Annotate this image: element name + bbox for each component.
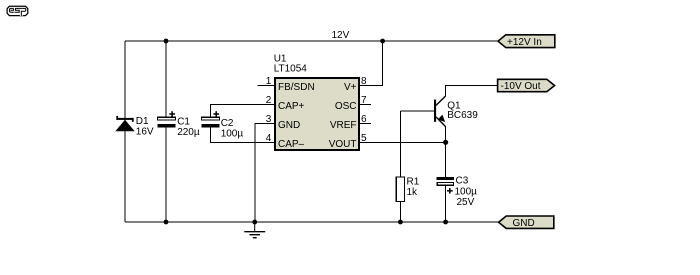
wire: left vertical branch (D1) <box>124 41 126 222</box>
svg-text:CAP–: CAP– <box>278 139 305 150</box>
svg-text:16V: 16V <box>136 126 154 137</box>
C3 plus sign <box>447 188 453 194</box>
capacitor C3 (polarized, + down) <box>437 177 455 185</box>
junction dot bottom rail / ground <box>252 220 257 225</box>
wire: V+ pin 8 to top rail <box>360 41 383 85</box>
svg-text:LT1054: LT1054 <box>274 63 308 74</box>
junction dot top rail / V+ <box>380 39 385 44</box>
tag -10V Out <box>498 79 555 92</box>
emitter arrow <box>439 115 445 121</box>
svg-text:12V: 12V <box>332 30 350 41</box>
tag +12V In <box>498 35 555 48</box>
wire: C3 bottom <box>445 186 447 222</box>
svg-text:GND: GND <box>278 120 300 131</box>
svg-text:6: 6 <box>361 114 367 125</box>
wire: C3 top <box>445 142 447 177</box>
wire: C2 bottom wire to pin 4 <box>211 128 275 143</box>
svg-text:7: 7 <box>361 95 367 106</box>
junction dot top rail / C1 <box>164 39 169 44</box>
svg-text:-10V Out: -10V Out <box>501 81 541 92</box>
svg-text:FB/SDN: FB/SDN <box>278 82 315 93</box>
transistor Q1 <box>434 96 446 127</box>
svg-text:C3: C3 <box>456 176 469 187</box>
svg-text:C1: C1 <box>177 117 190 128</box>
ground symbol <box>244 222 265 238</box>
svg-text:BC639: BC639 <box>447 110 478 121</box>
wire: base horizontal <box>400 110 436 112</box>
svg-text:25V: 25V <box>457 197 475 208</box>
wire: C2 top wire to pin 2 <box>211 104 275 117</box>
wire: VOUT pin 5 to emitter node <box>360 141 446 143</box>
junction dot bottom rail / C3 <box>443 220 448 225</box>
C1 plus sign <box>169 111 175 117</box>
IC pin labels <box>278 82 357 150</box>
svg-text:100µ: 100µ <box>221 128 244 139</box>
wire: C1 branch vertical <box>165 41 167 117</box>
pin 1 stub FB/SDN <box>258 84 275 86</box>
svg-text:220µ: 220µ <box>177 127 200 138</box>
capacitor C2 (polarized) <box>202 117 220 127</box>
pin 6 stub VREF <box>360 122 371 124</box>
svg-text:100µ: 100µ <box>455 186 478 197</box>
zener diode D1 <box>116 116 134 131</box>
emitter lead <box>436 117 446 127</box>
resistor R1 <box>396 177 404 202</box>
IC U1 box <box>275 78 359 150</box>
svg-text:VOUT: VOUT <box>329 139 357 150</box>
wire: collector to -10V Out <box>446 86 498 97</box>
svg-text:2: 2 <box>266 95 272 106</box>
svg-text:1k: 1k <box>407 187 419 198</box>
svg-text:+12V In: +12V In <box>507 37 542 48</box>
wire: emitter down to node <box>445 127 447 143</box>
capacitor C1 (polarized) <box>158 117 176 127</box>
svg-text:4: 4 <box>266 133 272 144</box>
svg-text:OSC: OSC <box>335 101 357 112</box>
svg-text:CAP+: CAP+ <box>278 101 305 112</box>
svg-text:GND: GND <box>513 218 535 229</box>
wire: bottom ground rail <box>125 221 499 223</box>
wire: pin 3 GND to ground rail <box>255 123 274 222</box>
svg-text:V+: V+ <box>344 82 357 93</box>
collector lead <box>436 96 446 105</box>
junction dot bottom rail / R1 <box>398 220 403 225</box>
wire: base branch vertical (R1) <box>399 111 401 177</box>
pin 7 stub OSC <box>360 103 371 105</box>
svg-text:3: 3 <box>266 114 272 125</box>
junction dot emitter / VOUT / C3 <box>443 140 448 145</box>
svg-text:VREF: VREF <box>330 120 357 131</box>
ESP logo <box>7 6 28 16</box>
wire: 12V top rail <box>125 40 498 42</box>
junction dot bottom rail / C1 <box>164 220 169 225</box>
base bar <box>434 100 436 122</box>
svg-text:1: 1 <box>266 76 272 87</box>
tag GND <box>499 216 554 229</box>
C2 plus sign <box>213 111 219 117</box>
